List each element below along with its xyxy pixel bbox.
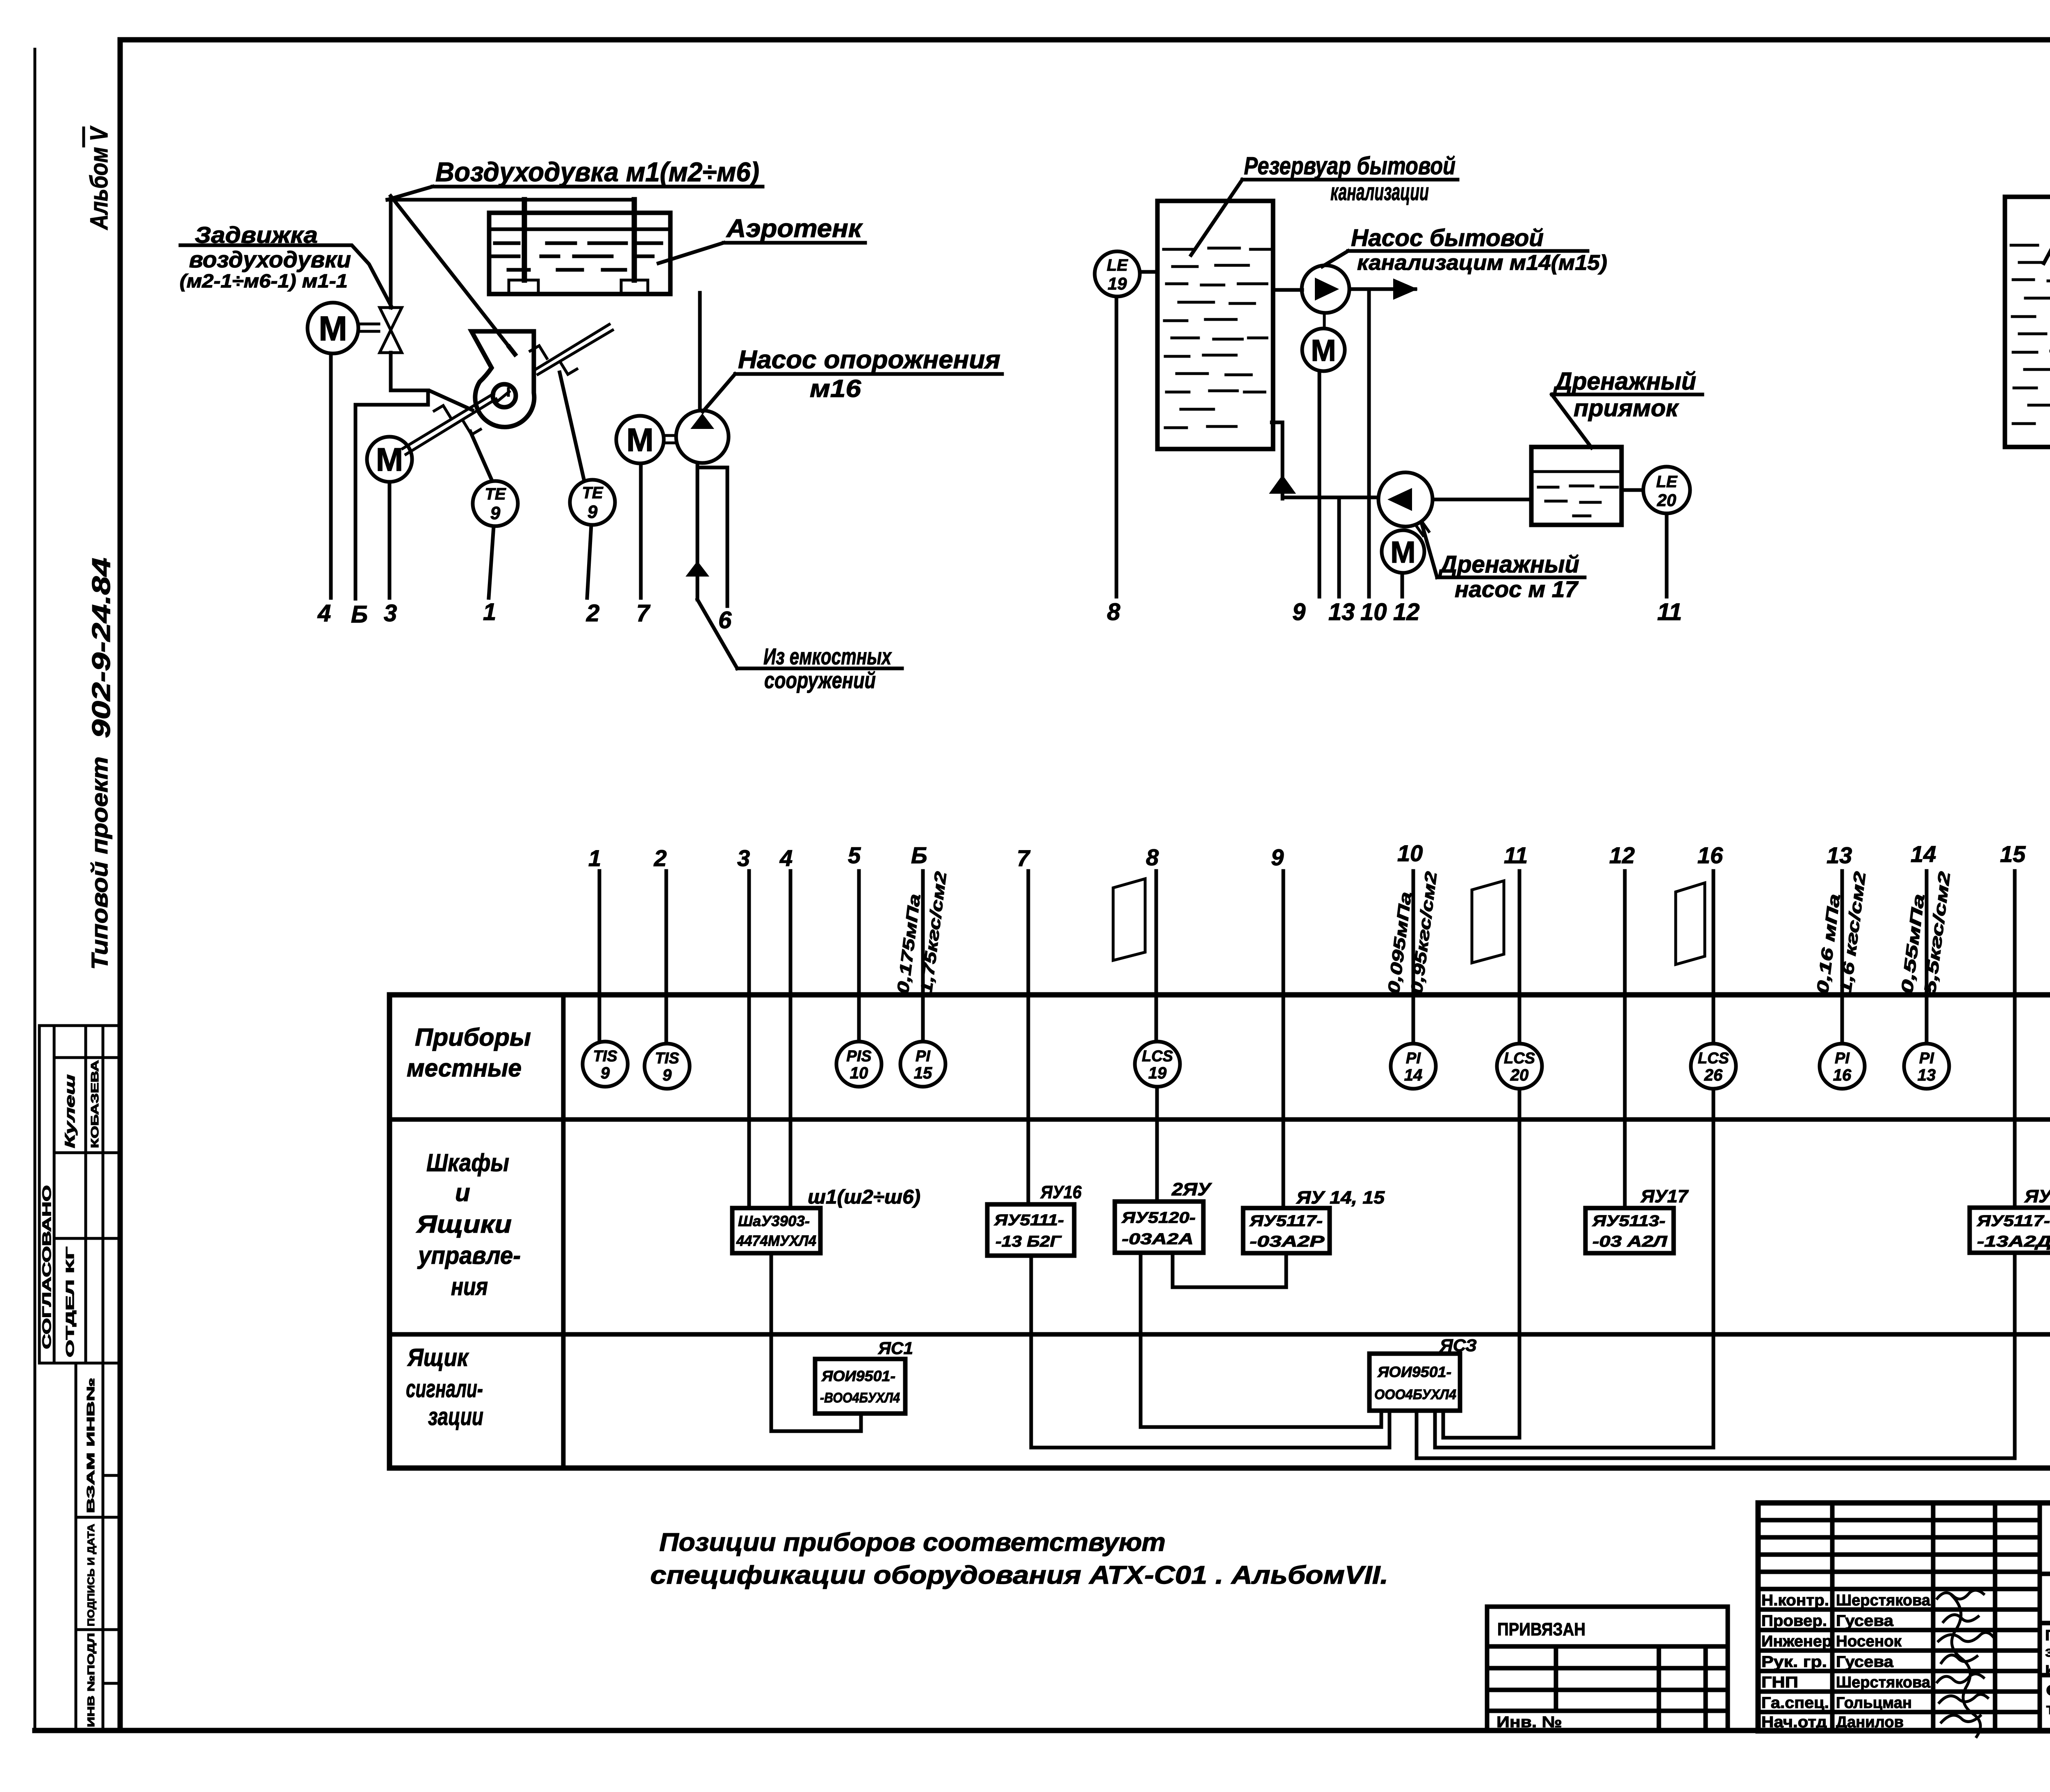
svg-text:Гусева: Гусева: [1836, 1612, 1894, 1630]
stamp subject box: [2040, 1623, 2050, 1676]
svg-text:Н.контр.: Н.контр.: [1761, 1592, 1829, 1609]
margin stamp box lower group: [76, 1363, 120, 1730]
stamp row rukgr: [1761, 1653, 1977, 1671]
svg-text:16: 16: [1697, 842, 1723, 868]
svg-text:Приборы: Приборы: [415, 1024, 531, 1051]
signal line 3: [747, 871, 751, 1208]
label nasos oporozhneniya m16: [703, 346, 1002, 412]
svg-text:Ящик: Ящик: [407, 1344, 469, 1371]
svg-text:15: 15: [914, 1064, 932, 1082]
svg-text:-03А2А: -03А2А: [1122, 1231, 1194, 1248]
motor M of pump M14: [1302, 313, 1345, 371]
instrument circle PIS10: [836, 1042, 881, 1087]
svg-text:6: 6: [718, 607, 732, 634]
row label shkafy i yashiki upravleniya: [416, 1149, 521, 1300]
label nasos bytovoy kanalizacii: [1322, 225, 1607, 275]
pressure label line 13: [1813, 871, 1869, 995]
wire to pos 4: [329, 353, 333, 598]
svg-text:-03 А2Л: -03 А2Л: [1592, 1233, 1667, 1250]
svg-text:Носенок: Носенок: [1836, 1633, 1902, 1650]
signal line 7: [1027, 871, 1030, 1204]
svg-text:ЯУ 12,13: ЯУ 12,13: [2024, 1186, 2050, 1206]
svg-text:здание с 6 воздуходувками ТВ80: здание с 6 воздуходувками ТВ80-1,6: [2045, 1643, 2050, 1660]
title block signature column lines: [1832, 1503, 2040, 1731]
signal line 6: [921, 871, 925, 1042]
svg-text:ЯОИ9501-: ЯОИ9501-: [1377, 1363, 1451, 1380]
sewage tank: [1157, 201, 1273, 449]
row label pribory mestnye: [407, 1024, 531, 1082]
stamp row nachotd: [1761, 1714, 1980, 1731]
svg-text:LCS: LCS: [1142, 1048, 1173, 1065]
svg-text:М: М: [1390, 535, 1416, 569]
svg-text:11: 11: [1657, 599, 1682, 625]
sewage suction strainer: [1269, 422, 1296, 499]
svg-text:13: 13: [1918, 1066, 1936, 1084]
wire YaS3 to line15 box: [1417, 1253, 2015, 1458]
aerotank drop pipe right: [632, 200, 637, 280]
air header to aerotank: [387, 198, 634, 202]
instrument circle LCS19: [1135, 1042, 1180, 1087]
table header column separator: [561, 995, 566, 1468]
svg-text:ТIS: ТIS: [593, 1048, 617, 1065]
svg-text:9: 9: [663, 1066, 672, 1084]
wire ShAU to YaS1: [771, 1253, 861, 1431]
pump M14 discharge with arrow: [1350, 278, 1418, 300]
svg-text:Насос бытовой: Насос бытовой: [1351, 225, 1544, 251]
svg-text:LE: LE: [1107, 256, 1128, 274]
svg-text:2: 2: [654, 845, 667, 871]
svg-text:ЯСЗ: ЯСЗ: [1440, 1336, 1477, 1355]
svg-text:Схема функциональная: Схема функциональная: [2046, 1682, 2050, 1699]
instrument TE9 first: [470, 431, 518, 526]
label vozduhoduvka M1(M2-M6): [387, 157, 763, 200]
svg-text:(м2-1÷м6-1) м1-1: (м2-1÷м6-1) м1-1: [180, 270, 348, 292]
svg-text:LE: LE: [1656, 473, 1677, 491]
wire LCS26 to YaS3: [1435, 1089, 1713, 1448]
svg-text:ЯС1: ЯС1: [878, 1338, 913, 1358]
pump M16: [676, 410, 729, 463]
aerotank diffuser right: [621, 280, 648, 294]
frame top border: [120, 37, 2050, 43]
svg-text:спецификации оборудования АТ: спецификации оборудования АТХ-С01 . Альб…: [650, 1561, 1388, 1589]
svg-text:ООО4БУХЛ4: ООО4БУХЛ4: [1374, 1387, 1456, 1402]
aerotank water dashes: [492, 243, 661, 270]
signal box YaS3: [1369, 1354, 1460, 1411]
margin stamp box soglasovano group: [39, 1026, 120, 1363]
svg-text:Б: Б: [911, 842, 927, 868]
drain pit level: [1531, 470, 1622, 473]
svg-text:2: 2: [586, 600, 599, 627]
wire to pos 10: [1367, 289, 1371, 597]
signal line 8: [1156, 871, 1157, 1202]
wire 2YaU left pin to YaS3: [1141, 1253, 1381, 1427]
svg-text:10: 10: [850, 1064, 868, 1082]
svg-text:ния: ния: [451, 1273, 488, 1300]
wire to pos 12: [1401, 573, 1404, 597]
label drenazhnyi nasos m17: [1422, 524, 1585, 602]
svg-text:Позиции приборов соответству: Позиции приборов соответствуют: [659, 1528, 1166, 1557]
svg-text:Рук. гр.: Рук. гр.: [1761, 1653, 1827, 1671]
svg-text:сигнали-: сигнали-: [406, 1375, 483, 1402]
aerotank tank: [489, 213, 670, 294]
svg-text:9: 9: [1271, 844, 1284, 870]
check arrow on discharge: [686, 561, 709, 577]
drain pit tank: [1531, 447, 1622, 525]
parallelogram tag line 8: [1113, 879, 1145, 960]
sheet outer thin left line: [34, 49, 36, 1730]
drain pit dashes: [1538, 486, 1617, 516]
svg-text:ЯУ5111-: ЯУ5111-: [994, 1212, 1064, 1229]
suction pipe from aerotank: [698, 293, 702, 410]
svg-text:технологического процесса: технологического процесса: [2046, 1701, 2050, 1718]
control box YaU5117D: [1970, 1208, 2050, 1253]
svg-text:7: 7: [636, 600, 651, 627]
label rezervuar tehnicheskoy vody: [2044, 139, 2050, 263]
svg-text:19: 19: [1148, 1064, 1167, 1082]
signal line 4: [789, 871, 793, 1208]
svg-text:ПОДПИСЬ И ДАТА: ПОДПИСЬ И ДАТА: [86, 1524, 97, 1626]
margin label Album V: [84, 125, 113, 230]
signal line 13: [1840, 871, 1844, 1042]
svg-text:-13 Б2Г: -13 Б2Г: [995, 1233, 1062, 1250]
svg-text:14: 14: [1911, 841, 1936, 867]
svg-text:Аэротенк: Аэротенк: [726, 214, 863, 243]
blower hub shaft mark: [498, 389, 509, 401]
stamp row glspec: [1761, 1694, 1988, 1712]
instrument circle LCS20: [1497, 1044, 1542, 1089]
svg-text:Шерстякова: Шерстякова: [1836, 1592, 1931, 1609]
blower shaft lower double line: [403, 394, 496, 454]
svg-text:Б: Б: [351, 601, 368, 628]
svg-text:PI: PI: [1406, 1050, 1421, 1067]
sewage tank water level: [1164, 248, 1270, 249]
wire line7 to YaS3: [1031, 1256, 1389, 1448]
svg-text:20: 20: [1657, 490, 1676, 510]
svg-text:10: 10: [1360, 599, 1387, 625]
svg-text:20: 20: [1510, 1066, 1529, 1084]
svg-text:Производственно-вспомогательно: Производственно-вспомогательное: [2045, 1627, 2050, 1644]
blower shaft upper double line: [535, 324, 613, 374]
svg-text:Провер.: Провер.: [1761, 1612, 1827, 1630]
pump M14: [1273, 265, 1349, 313]
signal line 12: [1623, 871, 1627, 1208]
svg-text:1: 1: [483, 599, 496, 625]
svg-text:4474МУХЛ4: 4474МУХЛ4: [736, 1232, 816, 1249]
svg-text:ИНВ №ПОДЛ: ИНВ №ПОДЛ: [86, 1633, 97, 1727]
svg-text:Дренажный: Дренажный: [1553, 367, 1696, 395]
svg-text:Типовой проект: Типовой проект: [87, 757, 112, 970]
stamp row inzhener: [1761, 1632, 1993, 1650]
svg-text:и: и: [455, 1179, 470, 1206]
parallelogram tag line 16col: [1676, 883, 1705, 964]
tech water dashes: [2012, 261, 2050, 424]
label aerotank: [658, 214, 865, 263]
svg-text:канализацим м14(м15): канализацим м14(м15): [1357, 251, 1607, 275]
stamp row nkontr: [1761, 1590, 1984, 1609]
tech water level: [2011, 244, 2050, 245]
wire to pos 1: [489, 527, 494, 598]
svg-text:ш1(ш2÷ш6): ш1(ш2÷ш6): [808, 1186, 920, 1208]
svg-text:3: 3: [384, 600, 397, 627]
svg-text:ШаУ3903-: ШаУ3903-: [738, 1213, 810, 1229]
svg-text:11: 11: [1504, 842, 1528, 868]
blower volute nose: [509, 347, 515, 354]
svg-text:PI: PI: [1919, 1050, 1934, 1067]
signal line 11: [1518, 871, 1522, 1042]
motor M of pump M17: [1382, 522, 1429, 573]
svg-text:сооружений: сооружений: [764, 667, 876, 693]
svg-text:ЯУ17: ЯУ17: [1640, 1186, 1689, 1206]
stamp row gnp: [1761, 1674, 1984, 1691]
svg-text:10: 10: [1397, 840, 1423, 866]
svg-text:9: 9: [490, 503, 501, 523]
svg-text:Нач.отд: Нач.отд: [1761, 1714, 1827, 1731]
aerotank water level: [490, 228, 669, 231]
svg-text:управле-: управле-: [417, 1242, 521, 1269]
privyazan table frame: [1487, 1607, 1728, 1731]
signal line 10: [1412, 871, 1415, 1042]
instrument circle PI15: [900, 1042, 945, 1087]
svg-text:902-9-24.84: 902-9-24.84: [87, 558, 116, 738]
stamp row prover: [1761, 1612, 1978, 1630]
shaft bracket lower pair: [434, 406, 481, 435]
svg-text:ТЕ: ТЕ: [582, 484, 603, 502]
svg-text:Инженер: Инженер: [1761, 1633, 1832, 1650]
pressure label line 6: [894, 871, 950, 995]
svg-text:1: 1: [588, 845, 601, 871]
svg-text:М: М: [1311, 333, 1336, 367]
wire to pos 13: [1337, 497, 1341, 597]
svg-text:ЯОИ9501-: ЯОИ9501-: [821, 1368, 895, 1384]
svg-text:Насос опорожнения: Насос опорожнения: [738, 346, 1000, 374]
svg-text:3: 3: [737, 845, 750, 871]
svg-text:2ЯУ: 2ЯУ: [1171, 1179, 1212, 1199]
blower volute casing: [471, 331, 534, 427]
sewage tank dashes: [1164, 265, 1267, 428]
pipe pump to pit: [1433, 498, 1531, 502]
control box YaU5117R: [1243, 1208, 1330, 1253]
svg-text:19: 19: [1108, 274, 1127, 293]
svg-text:Данилов: Данилов: [1836, 1714, 1904, 1731]
blower hub circle: [493, 384, 516, 407]
svg-text:9: 9: [1292, 599, 1305, 625]
svg-text:ЯУ5117-: ЯУ5117-: [1977, 1213, 2050, 1230]
svg-text:-ВОО4БУХЛ4: -ВОО4БУХЛ4: [820, 1390, 900, 1406]
wire to pos 8: [1115, 297, 1118, 597]
svg-text:Шкафы: Шкафы: [426, 1149, 509, 1176]
control box YaU5113: [1585, 1208, 1674, 1253]
svg-text:зации: зации: [428, 1403, 483, 1430]
svg-text:Резервуар бытовой: Резервуар бытовой: [1244, 152, 1455, 180]
stamp stadia list listov grid: [2040, 1623, 2050, 1731]
svg-text:16: 16: [1833, 1066, 1852, 1084]
title block outer: [1758, 1503, 2050, 1731]
svg-text:15: 15: [2000, 841, 2026, 867]
svg-text:5: 5: [848, 842, 861, 868]
svg-text:М: М: [376, 441, 403, 478]
svg-text:Шерстякова: Шерстякова: [1836, 1674, 1931, 1691]
svg-text:ОТДЕЛ КГ: ОТДЕЛ КГ: [64, 1247, 76, 1357]
parallelogram tag line 11: [1472, 881, 1504, 963]
signal line 1: [598, 871, 601, 1042]
instrument LE19: [1095, 251, 1157, 296]
motor M of blower: [367, 437, 412, 482]
svg-text:канализации: канализации: [1330, 179, 1429, 205]
svg-text:Воздуходувка м1(м2÷м6): Воздуходувка м1(м2÷м6): [435, 157, 759, 187]
instrument circle TIS9 a: [583, 1042, 628, 1087]
svg-text:-03А2Р: -03А2Р: [1250, 1233, 1325, 1250]
svg-text:13: 13: [1827, 842, 1852, 868]
control box ShAU3903: [732, 1208, 820, 1253]
aerotank drop pipe left: [522, 200, 527, 280]
signal line 15: [2013, 871, 2017, 1208]
svg-text:4: 4: [779, 845, 793, 871]
svg-text:Из емкостных: Из емкостных: [763, 643, 892, 669]
drain pump M17: [1378, 472, 1433, 527]
stamp scheme name box: [2046, 1682, 2050, 1732]
signal line 5: [857, 871, 861, 1042]
svg-text:местные: местные: [407, 1054, 522, 1082]
wire 2YaU right pin to YaU5117R: [1173, 1253, 1286, 1287]
svg-text:8: 8: [1146, 844, 1159, 870]
svg-text:8: 8: [1107, 599, 1121, 625]
svg-text:ПРИВЯЗАН: ПРИВЯЗАН: [1497, 1619, 1585, 1639]
signal line 9: [1282, 871, 1285, 1208]
instrument circle TIS9 b: [645, 1044, 690, 1089]
control box YaU5111: [987, 1204, 1074, 1256]
drain suction pipe: [1282, 496, 1378, 499]
svg-text:Гусева: Гусева: [1836, 1653, 1894, 1671]
svg-text:ЯУ5120-: ЯУ5120-: [1121, 1209, 1196, 1227]
svg-text:12: 12: [1393, 599, 1420, 625]
wire to pos 7: [639, 464, 643, 598]
control box YaU5120: [1115, 1202, 1203, 1253]
air duct riser with valve: [389, 200, 393, 390]
pump M16 discharge down: [696, 463, 699, 600]
svg-text:Гольцман: Гольцман: [1836, 1694, 1912, 1712]
svg-text:Инв. №: Инв. №: [1496, 1714, 1562, 1731]
duct to blower inlet: [391, 196, 509, 347]
frame bottom border: [35, 1728, 2050, 1733]
pressure label line 14: [1898, 871, 1954, 995]
pipe pit to LE20: [1622, 488, 1643, 492]
table row separator 1: [389, 1117, 2050, 1122]
svg-text:-13А2Д: -13А2Д: [1977, 1233, 2050, 1250]
title block signature row lines: [1758, 1520, 2040, 1712]
aerotank diffuser left: [509, 280, 538, 294]
svg-text:ТЕ: ТЕ: [485, 485, 506, 503]
signal line 2: [665, 871, 668, 1042]
shaft bracket upper pair: [530, 346, 577, 374]
valve M1-1: [380, 308, 402, 353]
svg-text:9: 9: [588, 502, 598, 522]
svg-text:КОБАЗЕВА: КОБАЗЕВА: [89, 1060, 101, 1148]
label rezervuar bytovoy kanalizacii: [1191, 152, 1458, 255]
svg-text:воздуходувки: воздуходувки: [189, 246, 351, 272]
svg-text:ТIS: ТIS: [655, 1050, 679, 1067]
label iz emkostnyh sooruzheniy: [697, 600, 902, 693]
instrument circle PI13: [1904, 1044, 1949, 1089]
table row separator 2: [389, 1332, 2050, 1337]
motor M of pump M16: [616, 416, 676, 463]
svg-text:Га.спец.: Га.спец.: [1761, 1694, 1829, 1712]
svg-text:СОГЛАСОВАНО: СОГЛАСОВАНО: [40, 1185, 54, 1349]
svg-text:PI: PI: [916, 1048, 931, 1065]
instrument circle PI14: [1391, 1044, 1436, 1089]
table outer frame: [389, 995, 2050, 1468]
svg-text:LCS: LCS: [1504, 1050, 1535, 1067]
svg-text:7: 7: [1017, 845, 1031, 871]
wire to pos 9: [1318, 372, 1321, 597]
label zadvizhka vozduhoduvki: [180, 222, 392, 308]
svg-text:ЯУ16: ЯУ16: [1040, 1182, 1082, 1202]
svg-text:м16: м16: [810, 375, 861, 402]
row label yashik signalizacii: [406, 1344, 483, 1430]
svg-text:насос м 17: насос м 17: [1455, 576, 1579, 602]
wire LCS20 to YaS3: [1443, 1089, 1519, 1438]
wire to pos 2: [587, 525, 591, 598]
svg-text:4: 4: [317, 600, 331, 627]
signal line 16col: [1712, 871, 1715, 1042]
svg-text:ВЗАМ ИНВ№: ВЗАМ ИНВ№: [84, 1378, 97, 1513]
instrument circle LCS26: [1691, 1044, 1736, 1089]
wire to pos 3: [388, 482, 392, 598]
instrument TE9 second: [560, 372, 615, 525]
svg-text:М: М: [319, 309, 347, 348]
instrument LE20: [1643, 467, 1690, 513]
instrument circle PI16: [1820, 1044, 1865, 1089]
inlet duct to volute: [391, 390, 472, 410]
signal line 14: [1925, 871, 1929, 1042]
svg-text:9: 9: [601, 1064, 610, 1082]
frame left border: [118, 40, 123, 1730]
svg-text:LCS: LCS: [1698, 1050, 1729, 1067]
svg-text:ЯУ5117-: ЯУ5117-: [1249, 1213, 1323, 1230]
svg-text:Дренажный: Дренажный: [1438, 551, 1579, 578]
motor M of valve: [307, 303, 379, 353]
tech water tank: [2005, 197, 2050, 447]
bypass wire to pos 6: [699, 467, 727, 606]
svg-text:PI: PI: [1835, 1050, 1850, 1067]
svg-text:М: М: [626, 422, 654, 458]
svg-text:приямок: приямок: [1574, 395, 1679, 422]
svg-text:ЯУ5113-: ЯУ5113-: [1592, 1213, 1665, 1230]
svg-text:26: 26: [1704, 1066, 1723, 1084]
stamp project number row: [2040, 1530, 2050, 1574]
svg-text:Ящики: Ящики: [416, 1211, 512, 1238]
svg-text:12: 12: [1609, 842, 1635, 868]
wire to pos 11: [1665, 514, 1669, 597]
svg-text:Альбом V: Альбом V: [85, 125, 113, 230]
tap to pos 5: [355, 390, 428, 599]
signal box YaS1: [815, 1359, 905, 1414]
svg-text:ЯУ 14, 15: ЯУ 14, 15: [1296, 1188, 1385, 1208]
svg-text:13: 13: [1328, 599, 1355, 625]
label drenazhnyi priyamok: [1552, 367, 1702, 448]
svg-text:ГНП: ГНП: [1761, 1674, 1798, 1691]
svg-text:PIS: PIS: [846, 1048, 871, 1065]
svg-text:14: 14: [1404, 1066, 1423, 1084]
big signature squiggle: [1952, 1595, 1980, 1737]
svg-text:Кулеш: Кулеш: [62, 1074, 78, 1148]
pressure label line 10: [1385, 871, 1440, 995]
